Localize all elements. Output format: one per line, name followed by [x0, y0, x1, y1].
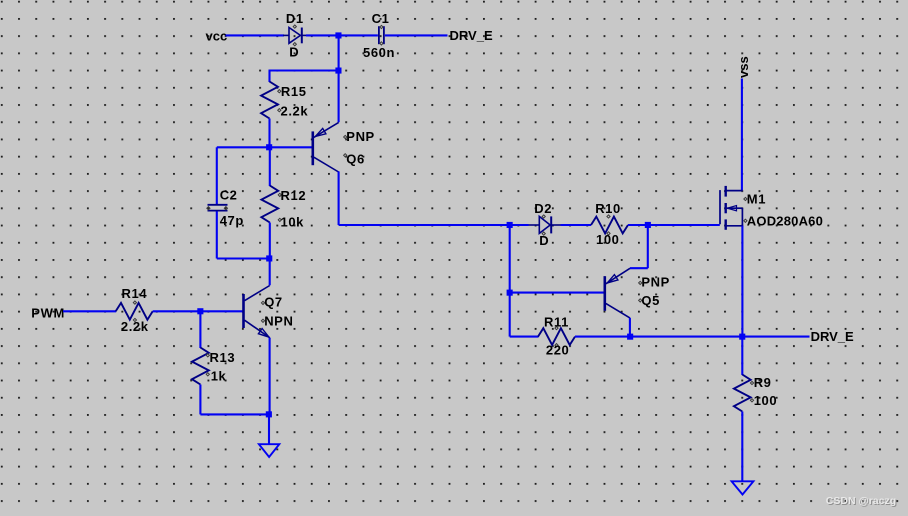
svg-text:R13: R13	[210, 350, 236, 365]
svg-text:PNP: PNP	[641, 274, 670, 289]
svg-text:220: 220	[546, 342, 570, 357]
wire D1 to C1	[306, 34, 378, 36]
capacitor C1	[379, 25, 384, 45]
svg-text:10k: 10k	[281, 215, 305, 230]
svg-text:AOD280A60: AOD280A60	[747, 213, 823, 228]
svg-text:C1: C1	[372, 11, 390, 26]
svg-text:R11: R11	[544, 314, 569, 329]
svg-text:2.2k: 2.2k	[121, 319, 149, 334]
wire VCC to D1	[226, 34, 285, 36]
svg-text:R9: R9	[754, 375, 772, 390]
resistor R12	[261, 147, 281, 258]
resistor R14	[116, 301, 153, 322]
resistor R9	[734, 337, 754, 482]
svg-text:100: 100	[596, 232, 620, 247]
svg-text:PWM: PWM	[31, 305, 65, 320]
resistor R13	[192, 311, 209, 414]
capacitor C2	[207, 205, 228, 211]
wire R15 top	[269, 69, 340, 71]
wire Q7 emitter down	[269, 338, 271, 415]
wire top node down to Q6 emitter	[338, 35, 340, 122]
svg-text:CSDN @raczg: CSDN @raczg	[826, 495, 896, 507]
wire Q5 emitter vertical	[647, 225, 649, 268]
wire C2 top lead	[216, 147, 218, 204]
svg-text:R10: R10	[595, 201, 621, 216]
transistor Q5	[605, 268, 642, 318]
svg-text:vss: vss	[736, 56, 751, 78]
svg-text:PNP: PNP	[346, 129, 375, 144]
wire R13 bottom rail	[200, 413, 269, 415]
svg-text:D: D	[289, 44, 299, 59]
mosfet M1	[720, 186, 747, 230]
wire VSS to M1 drain	[741, 79, 743, 191]
diode D2	[528, 215, 561, 235]
wire D2 to R10	[511, 224, 529, 226]
wire R10 to M1 gate	[628, 224, 720, 226]
wire R14 to Q7 base	[153, 310, 243, 312]
junction Q6 base node	[266, 144, 272, 150]
junction R15 top node	[335, 68, 341, 74]
svg-text:M1: M1	[747, 192, 766, 207]
wire Q5 base rail	[510, 292, 604, 294]
wire to R11 left	[510, 336, 539, 338]
wire D2 node down to Q5 base	[509, 225, 511, 293]
junction Q5 collector node	[627, 334, 633, 340]
svg-text:C2: C2	[220, 188, 238, 203]
svg-text:Q5: Q5	[641, 293, 660, 308]
wire Q6 base rail	[217, 146, 312, 148]
svg-text:47p: 47p	[220, 213, 244, 228]
wire to DRV_E node	[630, 336, 742, 338]
wire M1 source down to DRV_E node	[741, 226, 743, 337]
wire C1 to DRV_E	[385, 34, 448, 36]
wire R11 to Q5 collector node	[575, 336, 630, 338]
wire Q6 collector down	[338, 171, 340, 225]
svg-text:NPN: NPN	[264, 314, 293, 329]
svg-text:D2: D2	[534, 201, 552, 216]
junction R12 bottom node	[266, 255, 272, 261]
resistor R11	[538, 327, 575, 347]
resistor R15	[261, 71, 281, 148]
svg-text:D1: D1	[286, 11, 304, 26]
svg-text:D: D	[539, 233, 549, 248]
junction DRV_E node	[739, 334, 745, 340]
diode D1	[283, 25, 308, 46]
junction Q7 base node	[197, 308, 203, 314]
svg-text:Q6: Q6	[346, 151, 365, 166]
junction top rail node	[335, 32, 341, 38]
svg-text:R15: R15	[281, 84, 307, 99]
junction Q5 base node	[507, 290, 513, 296]
svg-text:Q7: Q7	[264, 295, 283, 310]
wire Q6 collector to D2 node	[339, 224, 510, 226]
transistor Q6	[313, 122, 347, 172]
wire DRV_E stub	[742, 336, 809, 338]
svg-text:vcc: vcc	[206, 29, 228, 44]
wire Q5 emitter jog	[630, 267, 648, 269]
junction D2 anode node	[507, 222, 513, 228]
junction Q7 emitter node	[266, 411, 272, 417]
wire C2 bottom lead	[216, 211, 218, 258]
svg-text:R14: R14	[122, 286, 148, 301]
wire Q5 base node down	[509, 293, 511, 337]
svg-text:DRV_E: DRV_E	[450, 28, 493, 43]
transistor Q7	[244, 286, 270, 338]
resistor R10	[591, 215, 628, 235]
svg-text:100: 100	[754, 393, 778, 408]
wire D2 cathode to R10	[561, 224, 592, 226]
svg-text:560n: 560n	[363, 45, 395, 60]
svg-text:1k: 1k	[211, 369, 227, 384]
watermark	[826, 495, 897, 508]
svg-text:2.2k: 2.2k	[281, 104, 309, 119]
wire PWM to R14	[63, 310, 116, 312]
ground left	[259, 444, 279, 457]
wire R12 node down to Q7 collector	[269, 259, 271, 286]
wire to ground left	[268, 414, 270, 444]
wire Q5 collector down	[629, 318, 631, 337]
ground right	[732, 481, 754, 494]
svg-text:DRV_E: DRV_E	[811, 329, 854, 344]
svg-text:R12: R12	[281, 188, 307, 203]
wire C2 to R12 bottom rail	[217, 257, 270, 259]
junction R10 right node	[645, 222, 651, 228]
